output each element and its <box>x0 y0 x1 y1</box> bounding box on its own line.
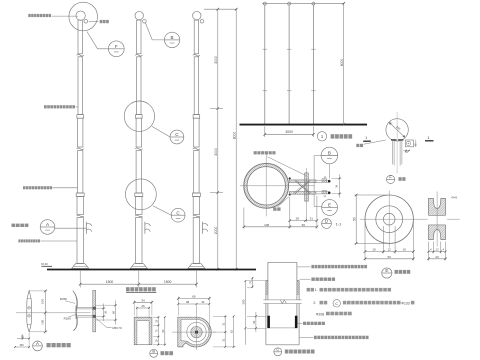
detail E bottom dims 19/12/19 and 50 <box>364 221 366 261</box>
detail A left dim 100/100 <box>29 290 47 292</box>
svg-text:62: 62 <box>162 329 165 332</box>
view title 1: elevation <box>317 132 326 141</box>
detail C sleeve hatch strips <box>266 281 268 295</box>
label phi133 steel tube <box>23 186 25 189</box>
detail B channel (left view) <box>134 317 152 345</box>
label tube positioning <box>300 278 311 280</box>
svg-text:R250: R250 <box>60 297 68 301</box>
svg-text:3000: 3000 <box>214 148 218 156</box>
detail E side bottom dims 4/12/4 and 20 <box>428 242 430 261</box>
detail circle around pole-1 top ball <box>69 2 98 31</box>
simple elevation pole 1 <box>264 5 266 125</box>
detail E left dim 50 <box>355 194 388 196</box>
detail F centerline <box>396 112 398 174</box>
detail F weld line (thick dashes) <box>391 139 397 141</box>
svg-text:3000: 3000 <box>285 130 293 134</box>
detail circle pole-2 lower joint <box>125 179 156 210</box>
svg-text:4: 4 <box>430 248 432 252</box>
svg-text:1.: 1. <box>315 288 318 292</box>
detail C break lines <box>263 300 302 303</box>
note line 1 <box>307 288 310 292</box>
svg-text:38: 38 <box>324 196 327 198</box>
detail E crosshair <box>360 218 460 220</box>
detail D bolt rod 2 (hatched) <box>289 192 316 195</box>
svg-text:1: 1 <box>427 135 429 140</box>
svg-text:50: 50 <box>252 320 256 323</box>
detail A bolt rod upper <box>77 307 93 309</box>
svg-text:E: E <box>385 268 388 273</box>
bottom dimension 1500+1500 <box>79 271 81 288</box>
simple elevation dim 8000 <box>262 2 345 4</box>
svg-text:8000: 8000 <box>232 132 236 140</box>
svg-text:F: F <box>389 175 392 180</box>
svg-text:1: 1 <box>321 134 324 139</box>
svg-text:1500: 1500 <box>106 280 114 284</box>
callout B at pole-2 top <box>145 23 164 40</box>
weld label <box>356 144 359 147</box>
label M8x70 <box>96 318 112 327</box>
detail B mid dims 25/75/25/62 <box>153 316 160 318</box>
svg-text:68: 68 <box>111 311 115 315</box>
title: flagpole distribution dims <box>126 287 130 291</box>
simple elevation dim 3000 <box>264 126 266 137</box>
right dimension chain 3000/3000/2000 <box>204 8 237 10</box>
label phi159 steel tube <box>18 239 20 242</box>
svg-text:Φ133: Φ133 <box>401 301 409 305</box>
callout C upper <box>152 126 170 137</box>
detail D cable dots (phi12) <box>289 178 291 180</box>
svg-text:26: 26 <box>141 304 145 308</box>
callout E (detail D) <box>322 200 338 216</box>
callout C lower <box>153 206 172 215</box>
svg-text:200: 200 <box>395 125 401 131</box>
label liner tube <box>298 323 303 325</box>
detail D crosshair <box>240 185 315 187</box>
detail A centerline <box>16 312 91 314</box>
svg-text:±0.00: ±0.00 <box>41 262 48 266</box>
svg-text:A: A <box>36 341 39 346</box>
detail D right dim 34 <box>332 177 342 179</box>
detail C upper pipe <box>268 261 297 263</box>
detail B pulley circles with hatched hub <box>187 322 206 341</box>
svg-text:3000: 3000 <box>214 56 218 64</box>
detail A spindle cleat <box>27 291 32 332</box>
detail B top dims 34/26 <box>133 301 135 316</box>
svg-text:12: 12 <box>436 248 439 252</box>
svg-text:1500: 1500 <box>164 280 172 284</box>
svg-text:C: C <box>276 348 279 352</box>
leader to callout E <box>314 155 321 157</box>
svg-text:62: 62 <box>230 330 234 333</box>
detail A small dims 50/150 <box>28 333 30 349</box>
svg-text:31: 31 <box>201 300 205 304</box>
svg-text:C: C <box>335 302 338 306</box>
svg-text:19: 19 <box>403 248 407 252</box>
svg-text:36: 36 <box>103 310 107 314</box>
label ball diameter with leader <box>28 14 30 17</box>
flagpole 3 (detailed elevation) <box>193 11 201 19</box>
detail B top dims 69/38/31 <box>177 297 179 316</box>
detail D bottom dims 28/31 and 108/69 <box>289 197 291 229</box>
detail A right dims 36/68 <box>96 307 106 309</box>
detail F pole lines <box>391 141 393 165</box>
svg-text:50: 50 <box>352 217 356 221</box>
callout B (detail D) <box>321 147 338 164</box>
detail C left dims 70/500/50 <box>251 277 253 288</box>
callout F at pole-1 top <box>87 32 108 49</box>
svg-text:69: 69 <box>302 223 306 227</box>
detail A bow hook (double curve with horns) <box>73 291 77 331</box>
detail D bolt rod 1 (hatched) <box>289 180 316 183</box>
leader to callout B <box>328 164 330 179</box>
svg-text:34: 34 <box>334 184 338 187</box>
svg-text:25: 25 <box>155 319 158 322</box>
label phi12 cable <box>254 151 257 154</box>
svg-text:B: B <box>328 151 331 156</box>
svg-text:70: 70 <box>248 280 252 283</box>
svg-text:E: E <box>328 203 331 208</box>
detail C weld bars (black) <box>267 316 270 328</box>
svg-text:Φ108: Φ108 <box>316 312 324 316</box>
detail B right dims 31/31/62 <box>213 315 227 317</box>
outer dimension 8000 <box>235 9 237 269</box>
svg-text:75: 75 <box>155 329 158 332</box>
detail D pipe ring (hatched) <box>244 163 289 208</box>
svg-text:F: F <box>115 44 118 49</box>
label pulley box with leader <box>89 21 99 23</box>
detail B box with pulley (right view) <box>178 317 211 347</box>
label phi108 steel tube <box>44 105 47 108</box>
callout E title <box>382 268 392 278</box>
svg-text:50: 50 <box>388 255 392 259</box>
callout C title: pipe connection <box>274 348 282 356</box>
callout F title <box>387 175 395 183</box>
simple elevation pole 3 <box>312 5 314 125</box>
svg-text:2.: 2. <box>313 301 316 305</box>
detail E pulley circles <box>365 195 413 243</box>
svg-text:100: 100 <box>40 299 44 304</box>
svg-text:R180: R180 <box>64 316 72 320</box>
svg-text:C: C <box>175 132 179 137</box>
detail F ball <box>386 119 408 141</box>
svg-text:100: 100 <box>40 319 44 324</box>
label washer <box>273 207 276 210</box>
simple elevation pole 2 <box>288 5 290 125</box>
svg-text:50: 50 <box>21 335 24 339</box>
svg-text:28: 28 <box>296 217 300 221</box>
svg-text:M8×70: M8×70 <box>112 326 122 330</box>
ground line (thick) <box>47 269 256 271</box>
svg-text:150: 150 <box>19 343 24 347</box>
callout D title 1-1 <box>322 219 332 229</box>
svg-text:1: 1 <box>365 135 367 140</box>
svg-text:108: 108 <box>264 223 269 227</box>
simple elevation ground (thick) <box>240 124 368 126</box>
detail C outer pipe <box>266 280 268 282</box>
svg-text:500: 500 <box>241 299 245 304</box>
svg-text:65: 65 <box>405 151 408 154</box>
detail A pole wall (hatched) <box>93 290 96 331</box>
label upper tube <box>297 266 310 268</box>
svg-text:31: 31 <box>221 322 225 325</box>
svg-text:25: 25 <box>155 339 158 342</box>
svg-text:R=5: R=5 <box>452 196 458 200</box>
svg-text:19: 19 <box>372 248 376 252</box>
callout A title: cable hook <box>33 341 43 351</box>
svg-text:1-1: 1-1 <box>336 221 343 226</box>
svg-text:12: 12 <box>388 248 392 252</box>
svg-text:B: B <box>171 35 174 40</box>
flagpole 1 (detailed elevation) <box>76 11 85 20</box>
detail D clamp plate (hatched) <box>305 173 309 201</box>
svg-text:C: C <box>176 210 180 215</box>
svg-text:38: 38 <box>186 300 190 304</box>
label cable position + callout A <box>12 224 16 227</box>
svg-text:31: 31 <box>221 338 225 341</box>
svg-text:34: 34 <box>141 298 145 302</box>
svg-text:4: 4 <box>443 248 445 252</box>
svg-text:A: A <box>46 222 50 227</box>
svg-text:20: 20 <box>435 255 439 259</box>
detail A bolt rod lower <box>77 315 93 317</box>
detail D bolt extensions with nuts <box>316 179 330 181</box>
svg-text:69: 69 <box>192 295 196 299</box>
label lower tube <box>300 337 314 339</box>
detail D bowtie brace <box>295 180 310 193</box>
svg-text:D: D <box>325 219 328 224</box>
detail F diameter arrow + label <box>389 123 405 138</box>
detail F pulley box <box>405 140 413 147</box>
svg-text:2000: 2000 <box>214 227 218 235</box>
svg-text:8000: 8000 <box>340 59 344 67</box>
svg-text:B: B <box>152 349 155 354</box>
flagpole 2 (detailed elevation) <box>135 11 143 19</box>
callout B title: pulley box <box>150 349 158 357</box>
svg-text:31: 31 <box>310 217 314 221</box>
detail circle pole-2 upper joint <box>124 101 154 131</box>
